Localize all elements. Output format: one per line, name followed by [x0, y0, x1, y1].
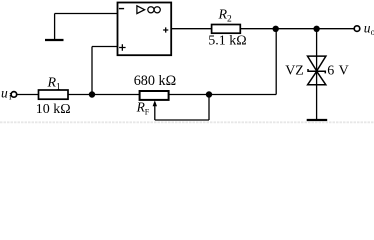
- svg-text:680 kΩ: 680 kΩ: [134, 73, 176, 89]
- ground (top-left): [45, 39, 64, 41]
- wire wiper vertical to junction: [208, 95, 210, 121]
- ground (under zener): [307, 119, 328, 121]
- potentiometer wiper arrowhead: [153, 100, 157, 106]
- junction node feedback tap: [273, 26, 279, 32]
- junction node at non-inverting input: [89, 91, 95, 97]
- potentiometer wiper arrow stem: [154, 103, 156, 120]
- potentiometer RF body: [140, 91, 169, 100]
- op-amp inverting input minus sign: [119, 8, 124, 10]
- wire feedback vertical: [275, 29, 277, 95]
- svg-text:5.1 kΩ: 5.1 kΩ: [208, 34, 246, 49]
- svg-text:R: R: [47, 76, 57, 91]
- junction node wiper tie: [206, 91, 212, 97]
- svg-text:1: 1: [56, 83, 61, 93]
- wire potentiometer right side: [169, 94, 277, 96]
- op-amp U1 box: [118, 3, 172, 56]
- op-amp output plus sign: [163, 27, 168, 32]
- svg-text:o: o: [371, 27, 374, 37]
- zener VZ bottom triangle: [308, 71, 326, 84]
- junction node zener tap: [313, 26, 319, 32]
- wire op-amp output to R2: [172, 28, 212, 30]
- svg-text:6 V: 6 V: [327, 63, 349, 78]
- terminal u_i circle: [11, 92, 17, 98]
- svg-text:VZ: VZ: [285, 64, 304, 79]
- op-amp gain triangle symbol: [137, 6, 145, 14]
- wire input to R1: [17, 94, 38, 96]
- svg-text:2: 2: [227, 15, 232, 25]
- wire zener branch vertical: [316, 29, 318, 120]
- wire R2 to output terminal: [241, 28, 354, 30]
- wire inverting input horizontal: [55, 13, 117, 15]
- wire R1 to potentiometer: [68, 94, 139, 96]
- scan artifact baseline: [0, 121, 374, 123]
- op-amp non-inverting input plus sign: [119, 44, 126, 51]
- wire inverting input vertical to ground: [54, 14, 56, 41]
- wire wiper horizontal: [155, 119, 209, 121]
- wire non-inverting input vertical: [91, 47, 93, 95]
- wire non-inverting input horizontal: [92, 46, 117, 48]
- svg-text:u: u: [1, 86, 8, 101]
- zener VZ bar with hooks: [308, 69, 325, 73]
- resistor R2: [212, 25, 241, 34]
- op-amp infinity symbol left loop: [148, 7, 154, 13]
- svg-text:F: F: [145, 108, 150, 117]
- op-amp infinity symbol right loop: [154, 7, 160, 13]
- terminal u_o circle: [354, 26, 360, 32]
- resistor R1: [39, 90, 69, 99]
- svg-text:10 kΩ: 10 kΩ: [36, 102, 71, 117]
- svg-text:R: R: [218, 8, 228, 23]
- zener VZ top triangle: [308, 56, 326, 71]
